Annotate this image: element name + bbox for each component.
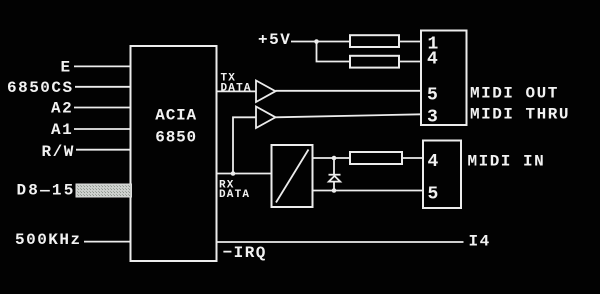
svg-text:I4: I4	[469, 232, 491, 250]
data bus D8-15 (wide shaded bar)	[76, 184, 132, 197]
wire R1 to J1 pin 1	[399, 41, 421, 43]
wire RX DATA from opto U3 to U1	[217, 173, 272, 175]
resistor R3 (MIDI IN series)	[350, 152, 402, 164]
wire U3 output top to R3 and J2 pin 4	[313, 157, 351, 159]
svg-text:R/W: R/W	[42, 143, 75, 161]
svg-text:DATA: DATA	[221, 83, 252, 95]
resistor R2 (MIDI THRU pin 4 pull)	[350, 56, 399, 68]
svg-text:4: 4	[428, 152, 439, 172]
buffer U2A (MIDI OUT driver)	[256, 81, 276, 103]
wire +5V to R1	[291, 41, 350, 43]
svg-text:DATA: DATA	[219, 189, 250, 201]
wire A2 to U1	[74, 107, 131, 109]
net label TX DATA	[221, 73, 252, 95]
svg-text:ACIA: ACIA	[155, 107, 197, 125]
wire U3 output bottom to J2 pin 5	[313, 190, 424, 192]
svg-text:5: 5	[428, 185, 439, 205]
net label RX DATA	[219, 180, 250, 202]
junction top of diode D1	[332, 156, 337, 161]
resistor R1 (MIDI OUT pin 1 pull)	[350, 35, 399, 47]
svg-text:5: 5	[427, 85, 438, 105]
svg-text:+5V: +5V	[258, 31, 291, 49]
wire R2 to J1 pin 4	[399, 61, 421, 63]
connector J1 MIDI OUT / MIDI THRU	[421, 31, 467, 128]
junction bottom of diode D1	[332, 188, 337, 193]
wire -IRQ from U1 to I4	[217, 241, 464, 243]
svg-text:4: 4	[427, 50, 438, 70]
svg-text:MIDI THRU: MIDI THRU	[470, 106, 570, 124]
svg-text:500KHz: 500KHz	[15, 231, 82, 249]
wire U2A output to J1 pin 5	[276, 90, 422, 92]
wire R/W to U1	[76, 149, 131, 151]
wire 6850CS to U1	[75, 86, 131, 88]
svg-text:D8—15: D8—15	[17, 182, 76, 200]
wire 500KHz to U1	[84, 241, 131, 243]
svg-text:MIDI OUT: MIDI OUT	[470, 85, 559, 103]
svg-text:A1: A1	[51, 121, 73, 139]
svg-text:6850: 6850	[155, 129, 197, 147]
svg-text:3: 3	[427, 108, 438, 128]
wire E to U1	[74, 65, 131, 67]
svg-text:E: E	[61, 59, 72, 77]
svg-text:MIDI IN: MIDI IN	[468, 153, 546, 171]
wire U2B output to J1 pin 3	[276, 114, 422, 117]
svg-text:6850CS: 6850CS	[7, 79, 74, 97]
wire R3 to J2 pin 4	[402, 157, 423, 159]
wire +5V branch down to R2	[317, 42, 351, 62]
connector J2 MIDI IN	[423, 141, 461, 209]
svg-text:−IRQ: −IRQ	[223, 244, 267, 262]
wire A1 to U1	[74, 128, 131, 130]
diode D1 (protection across opto input)	[329, 158, 341, 191]
wire TX DATA from U1 to buffer U2A	[217, 90, 257, 92]
junction RX DATA / U2B input	[231, 171, 236, 176]
svg-text:A2: A2	[51, 100, 73, 118]
IC U1 ACIA 6850 body	[131, 46, 217, 261]
optocoupler U3	[272, 145, 313, 207]
junction +5V branch	[314, 39, 319, 44]
buffer U2B (MIDI THRU driver)	[256, 107, 276, 129]
wire U2B input from RX DATA node	[233, 117, 256, 173]
